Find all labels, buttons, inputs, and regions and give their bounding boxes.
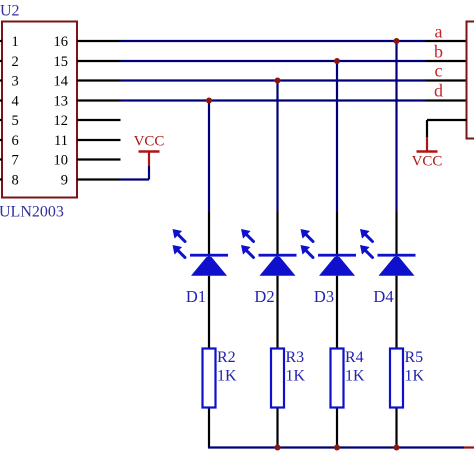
svg-text:VCC: VCC bbox=[412, 153, 443, 169]
svg-text:5: 5 bbox=[12, 113, 19, 129]
svg-text:7: 7 bbox=[12, 153, 19, 169]
svg-text:1K: 1K bbox=[405, 368, 425, 385]
svg-text:3: 3 bbox=[12, 74, 19, 90]
svg-text:1K: 1K bbox=[286, 368, 306, 385]
svg-text:4: 4 bbox=[12, 94, 20, 110]
svg-text:12: 12 bbox=[54, 113, 69, 129]
svg-text:1K: 1K bbox=[217, 368, 237, 385]
svg-text:a: a bbox=[435, 22, 443, 42]
svg-text:2: 2 bbox=[12, 54, 19, 70]
svg-text:1K: 1K bbox=[345, 368, 365, 385]
svg-text:R3: R3 bbox=[286, 349, 305, 366]
svg-text:D3: D3 bbox=[314, 287, 334, 306]
svg-text:D2: D2 bbox=[254, 287, 274, 306]
svg-text:13: 13 bbox=[54, 94, 69, 110]
svg-text:6: 6 bbox=[12, 133, 19, 149]
svg-text:d: d bbox=[434, 81, 443, 101]
svg-text:14: 14 bbox=[54, 74, 69, 90]
svg-text:R2: R2 bbox=[217, 349, 236, 366]
svg-text:U2: U2 bbox=[0, 2, 20, 19]
svg-text:D4: D4 bbox=[373, 287, 393, 306]
svg-text:8: 8 bbox=[12, 173, 19, 189]
svg-text:D1: D1 bbox=[186, 287, 206, 306]
svg-text:15: 15 bbox=[54, 54, 69, 70]
svg-text:11: 11 bbox=[54, 133, 68, 149]
svg-text:10: 10 bbox=[54, 153, 69, 169]
svg-text:16: 16 bbox=[54, 34, 69, 50]
svg-text:VCC: VCC bbox=[134, 133, 165, 149]
svg-text:9: 9 bbox=[61, 173, 68, 189]
svg-text:ULN2003: ULN2003 bbox=[0, 204, 64, 221]
svg-text:R4: R4 bbox=[345, 349, 364, 366]
svg-text:c: c bbox=[435, 61, 443, 81]
svg-text:b: b bbox=[434, 42, 443, 62]
svg-text:1: 1 bbox=[12, 34, 19, 50]
svg-text:R5: R5 bbox=[405, 349, 424, 366]
